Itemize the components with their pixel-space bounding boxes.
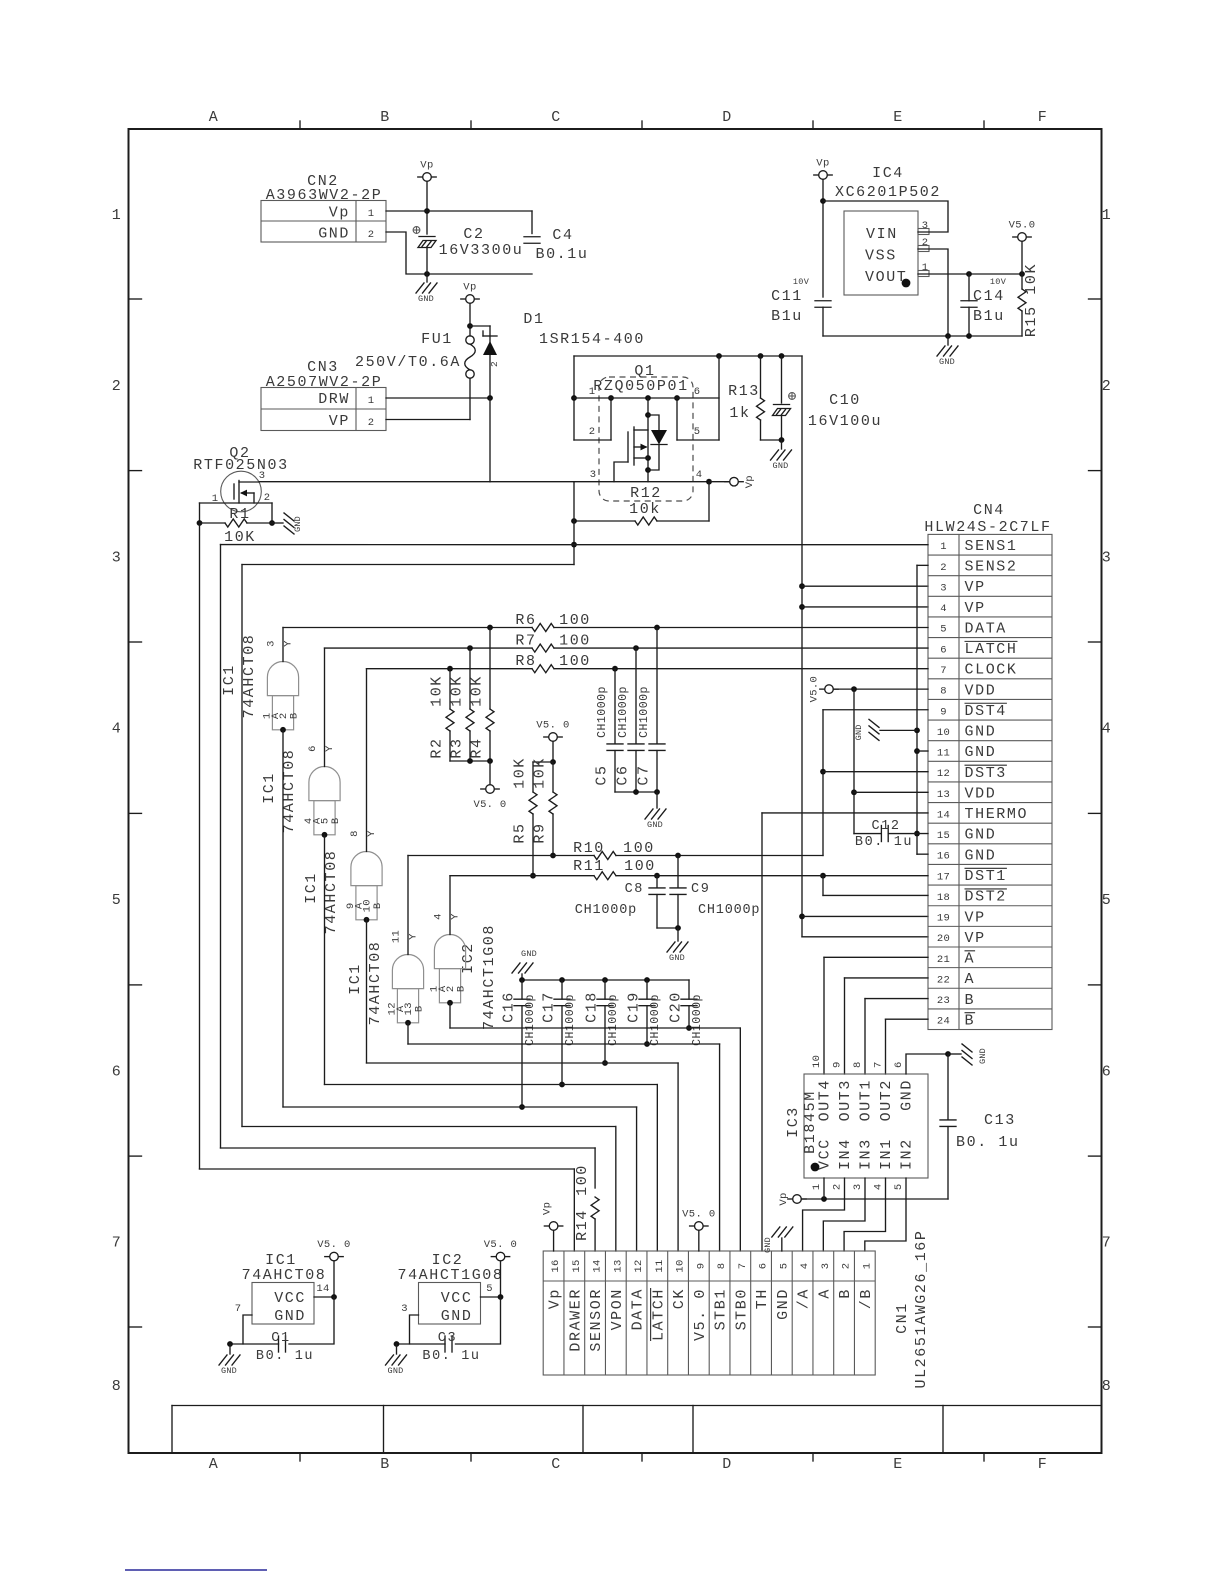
svg-text:7: 7 [873, 1061, 885, 1068]
svg-text:C14: C14 [973, 288, 1005, 305]
svg-text:B0. 1u: B0. 1u [256, 1349, 314, 1364]
svg-text:A: A [816, 1288, 833, 1299]
resistor R13 1k [760, 356, 762, 398]
svg-text:Vp: Vp [547, 1288, 564, 1309]
svg-text:DST1: DST1 [965, 868, 1007, 885]
svg-text:GND: GND [521, 949, 537, 959]
svg-text:GND: GND [388, 1366, 404, 1376]
Q1 pin row 3-4 [574, 481, 709, 483]
IC3 pin6 to ground and C13 [906, 1054, 948, 1074]
svg-text:9: 9 [940, 706, 947, 718]
svg-text:7: 7 [112, 1235, 123, 1252]
svg-text:SENS1: SENS1 [965, 538, 1018, 555]
wire DST4/DST3 x823 [823, 709, 928, 711]
svg-text:VIN: VIN [866, 226, 898, 243]
svg-text:FU1: FU1 [421, 331, 453, 348]
wire THERMO row14 [762, 812, 928, 814]
svg-text:IC1: IC1 [303, 872, 320, 904]
capacitor C9 CH1000p [677, 856, 679, 888]
svg-text:A3963WV2-2P: A3963WV2-2P [266, 187, 383, 204]
diode D1 1SR154-400 [489, 326, 491, 398]
terminal V5.0 IC1 [330, 1252, 339, 1261]
svg-text:R1: R1 [229, 506, 250, 523]
svg-text:R14: R14 [574, 1209, 591, 1241]
svg-text:CH1000p: CH1000p [698, 903, 760, 918]
svg-text:STB1: STB1 [713, 1288, 730, 1330]
svg-text:GND: GND [965, 724, 997, 741]
svg-text:6: 6 [694, 386, 701, 398]
svg-text:Y: Y [324, 745, 336, 752]
svg-text:IN1: IN1 [878, 1138, 895, 1170]
wire pin2 to gnd [918, 249, 948, 336]
svg-text:R9: R9 [532, 822, 549, 843]
blue underline mark [125, 1569, 267, 1571]
terminal V5.0 IC2 [496, 1252, 505, 1261]
Q1 pin frame left [573, 356, 575, 440]
svg-text:GND: GND [274, 1308, 306, 1325]
svg-text:Vp: Vp [329, 205, 350, 222]
svg-text:15: 15 [937, 830, 950, 842]
svg-text:IC3: IC3 [785, 1106, 802, 1138]
svg-text:13: 13 [612, 1259, 624, 1272]
svg-text:B1u: B1u [771, 308, 803, 325]
svg-text:GND: GND [293, 516, 303, 532]
terminal Vp at Q1 pin4 [709, 481, 729, 483]
svg-text:2: 2 [832, 1184, 844, 1191]
svg-text:OUT1: OUT1 [858, 1079, 875, 1121]
svg-text:RZQ050P01: RZQ050P01 [593, 378, 688, 395]
svg-text:IC1: IC1 [347, 963, 364, 995]
svg-text:6: 6 [112, 1064, 123, 1081]
svg-text:D: D [722, 1456, 733, 1473]
svg-text:B: B [289, 712, 301, 719]
svg-text:R11: R11 [573, 858, 605, 875]
svg-text:23: 23 [937, 995, 950, 1007]
svg-text:1: 1 [368, 395, 375, 407]
ground IC1 block [229, 1344, 231, 1354]
resistor R11 100 [450, 875, 594, 877]
svg-text:C10: C10 [829, 392, 861, 409]
wire to CN1 pin 11 [325, 1084, 658, 1086]
svg-text:C6: C6 [615, 764, 632, 785]
svg-text:16V3300u: 16V3300u [439, 242, 524, 259]
svg-text:8: 8 [349, 830, 361, 837]
terminal Vp top [423, 173, 432, 182]
svg-text:6: 6 [307, 745, 319, 752]
svg-text:4: 4 [696, 469, 703, 481]
svg-text:GND: GND [418, 294, 434, 304]
resistor R8 100 [367, 668, 533, 670]
svg-text:Vp: Vp [420, 160, 433, 172]
wire Q2 source/drain [200, 502, 273, 504]
svg-text:Y: Y [450, 913, 462, 920]
IC3 B1845M [804, 1074, 928, 1178]
svg-text:Vp: Vp [778, 1192, 790, 1205]
svg-text:B: B [965, 992, 976, 1009]
svg-text:5: 5 [893, 1184, 905, 1191]
svg-text:GND: GND [763, 1237, 773, 1253]
svg-text:CH1000p: CH1000p [564, 994, 577, 1046]
svg-text:13: 13 [937, 789, 950, 801]
svg-text:IC1: IC1 [221, 664, 238, 696]
svg-text:LATCH: LATCH [650, 1288, 667, 1341]
svg-text:7: 7 [940, 665, 947, 677]
svg-text:R5: R5 [512, 822, 529, 843]
svg-text:2: 2 [841, 1263, 853, 1270]
capacitor C17 CH1000p [561, 980, 563, 999]
svg-text:3: 3 [259, 470, 266, 482]
svg-text:Vp: Vp [463, 282, 476, 294]
ground below C9 [677, 928, 679, 941]
svg-text:GND: GND [965, 847, 997, 864]
svg-text:B0. 1u: B0. 1u [956, 1134, 1020, 1151]
svg-text:100: 100 [559, 633, 591, 650]
svg-text:VP: VP [965, 600, 986, 617]
Q1 top rail [574, 355, 802, 357]
svg-text:5: 5 [1102, 892, 1113, 909]
resistor R6 100 [283, 627, 532, 629]
title block [172, 1405, 1102, 1407]
svg-text:Vp: Vp [744, 475, 756, 488]
resistor R1 10K [225, 519, 247, 527]
svg-text:V5. 0: V5. 0 [536, 720, 570, 732]
capacitor C6 CH1000p [635, 648, 637, 744]
svg-text:GND: GND [647, 820, 663, 830]
svg-text:3: 3 [401, 1303, 408, 1315]
svg-text:CLOCK: CLOCK [965, 662, 1018, 679]
IC4 ground rail [823, 335, 1022, 337]
fuse FU1 250V/T0.6A [466, 336, 474, 344]
wire GND bus x917 [917, 564, 928, 566]
svg-text:12: 12 [937, 768, 950, 780]
svg-text:2: 2 [368, 417, 375, 429]
svg-text:10K: 10K [224, 529, 256, 546]
svg-text:IC1: IC1 [261, 772, 278, 804]
svg-text:2: 2 [264, 492, 271, 504]
svg-text:CN1: CN1 [894, 1302, 911, 1334]
wire VP bus vertical [801, 356, 803, 937]
svg-text:7: 7 [737, 1263, 749, 1270]
svg-text:R12: R12 [630, 485, 662, 502]
svg-text:E: E [893, 1456, 904, 1473]
svg-text:18: 18 [937, 892, 950, 904]
svg-text:/B: /B [858, 1288, 875, 1309]
svg-text:19: 19 [937, 913, 950, 925]
svg-text:16V100u: 16V100u [808, 413, 882, 430]
svg-text:A: A [965, 951, 976, 968]
terminal Vp IC4 [819, 171, 828, 180]
svg-text:CH1000p: CH1000p [596, 686, 609, 738]
svg-text:16: 16 [937, 851, 950, 863]
svg-text:74AHCT1G08: 74AHCT1G08 [397, 1267, 503, 1284]
svg-text:10K: 10K [429, 675, 446, 707]
capacitor C4 B0.1u [524, 236, 540, 238]
svg-text:15: 15 [571, 1259, 583, 1272]
svg-text:10k: 10k [629, 501, 661, 518]
svg-text:UL2651AWG26_16P: UL2651AWG26_16P [913, 1229, 930, 1388]
svg-text:LATCH: LATCH [965, 641, 1018, 658]
svg-text:B: B [414, 1005, 426, 1012]
svg-text:DST2: DST2 [965, 889, 1007, 906]
svg-text:1: 1 [112, 207, 123, 224]
svg-text:C5: C5 [594, 764, 611, 785]
transistor Q1 RZQ050P01 dashed outline [599, 377, 693, 501]
svg-text:7: 7 [235, 1303, 242, 1315]
svg-text:VDD: VDD [965, 785, 997, 802]
capacitor C1 B0.1u [278, 1336, 280, 1352]
svg-text:4: 4 [112, 721, 123, 738]
svg-text:GND: GND [318, 226, 350, 243]
svg-text:2: 2 [489, 361, 500, 367]
resistor R2 10K [449, 669, 451, 709]
svg-text:IN4: IN4 [837, 1138, 854, 1170]
svg-text:GND: GND [939, 357, 955, 367]
svg-text:74AHCT1G08: 74AHCT1G08 [481, 924, 498, 1030]
ground below C10 [781, 440, 783, 449]
svg-text:C9: C9 [691, 882, 710, 897]
svg-text:100: 100 [559, 612, 591, 629]
svg-text:R7: R7 [515, 633, 536, 650]
svg-text:C12: C12 [871, 819, 900, 834]
svg-text:4: 4 [433, 913, 445, 920]
svg-text:VPON: VPON [609, 1288, 626, 1330]
svg-text:D1: D1 [523, 311, 544, 328]
capacitor C12 B0.1u [854, 833, 881, 835]
svg-text:74AHCT08: 74AHCT08 [323, 850, 340, 935]
ground IC4 [947, 336, 949, 345]
svg-text:V5.0: V5.0 [1009, 220, 1036, 232]
svg-text:C: C [551, 1456, 562, 1473]
capacitor C16 CH1000p [521, 980, 523, 999]
svg-text:VP: VP [965, 579, 986, 596]
resistor R12 10k [708, 482, 710, 521]
svg-text:1: 1 [922, 262, 929, 274]
svg-text:F: F [1038, 109, 1049, 126]
svg-text:5: 5 [112, 892, 123, 909]
svg-text:1: 1 [861, 1263, 873, 1270]
svg-text:17: 17 [937, 871, 950, 883]
svg-text:C19: C19 [626, 991, 643, 1023]
svg-text:VP: VP [965, 909, 986, 926]
terminal Vp IC3 [793, 1195, 802, 1204]
svg-text:6: 6 [893, 1061, 905, 1068]
svg-text:B: B [372, 902, 384, 909]
capacitor C2 16V3300u [419, 236, 435, 238]
svg-text:21: 21 [937, 954, 950, 966]
svg-text:GND: GND [775, 1288, 792, 1320]
svg-text:5: 5 [778, 1263, 790, 1270]
svg-text:4: 4 [799, 1263, 811, 1270]
wire DRW node [386, 397, 490, 399]
svg-text:B: B [965, 1012, 976, 1029]
svg-text:R3: R3 [449, 737, 466, 758]
svg-text:C8: C8 [625, 882, 644, 897]
capacitor C20 CH1000p [688, 980, 690, 999]
border frame [129, 129, 1102, 1453]
svg-text:1: 1 [940, 541, 947, 553]
svg-text:GND: GND [899, 1079, 916, 1111]
svg-text:VSS: VSS [865, 248, 897, 265]
svg-text:74AHCT08: 74AHCT08 [367, 941, 384, 1026]
svg-text:THERMO: THERMO [965, 806, 1029, 823]
capacitor C10 16V100u [781, 356, 783, 403]
svg-text:100: 100 [623, 840, 655, 857]
svg-text:250V/T0.6A: 250V/T0.6A [355, 354, 461, 371]
wire to CN1 pin 12 [283, 1106, 637, 1108]
svg-text:C16: C16 [501, 991, 518, 1023]
svg-text:B0.1u: B0.1u [535, 246, 588, 263]
svg-text:B: B [380, 1456, 391, 1473]
IC3 inputs to CN1 [803, 1178, 845, 1251]
svg-text:DRAWER: DRAWER [567, 1288, 584, 1352]
svg-text:3: 3 [1102, 549, 1113, 566]
svg-text:16: 16 [550, 1259, 562, 1272]
wire to CN1 pin 13 [242, 1126, 616, 1128]
wire VPON from Q1 [241, 565, 243, 1127]
svg-text:Y: Y [366, 830, 378, 837]
svg-text:10: 10 [675, 1259, 687, 1272]
svg-text:B0. 1u: B0. 1u [422, 1349, 480, 1364]
ground below C2 [426, 274, 428, 282]
wire V5.0 vertical x854 [853, 689, 855, 833]
svg-text:V5. 0: V5. 0 [317, 1239, 351, 1251]
svg-text:3: 3 [922, 220, 929, 232]
ground IC2 block [396, 1344, 398, 1354]
wire to CN1 pin 15 [200, 1168, 575, 1170]
svg-text:2: 2 [112, 378, 123, 395]
svg-text:10K: 10K [532, 757, 549, 789]
svg-text:Vp: Vp [542, 1202, 554, 1215]
svg-text:9: 9 [695, 1263, 707, 1270]
wire to CN1 pin 7 [450, 1027, 740, 1029]
svg-text:CN4: CN4 [973, 502, 1005, 519]
svg-text:B: B [837, 1288, 854, 1299]
svg-text:R2: R2 [429, 737, 446, 758]
svg-text:R13: R13 [728, 383, 760, 400]
resistor R10 100 [408, 855, 594, 857]
svg-text:Y: Y [408, 933, 420, 940]
capacitor C19 CH1000p [646, 980, 648, 999]
svg-text:GND: GND [965, 744, 997, 761]
svg-text:2: 2 [368, 229, 375, 241]
svg-text:C: C [551, 109, 562, 126]
svg-text:C1: C1 [271, 1331, 290, 1346]
wire bundle left verticals [199, 523, 201, 1169]
terminal V5.0 below R4 [489, 761, 491, 785]
svg-text:VDD: VDD [965, 682, 997, 699]
svg-text:VCC: VCC [817, 1138, 834, 1170]
svg-text:11: 11 [654, 1259, 666, 1272]
resistor R9 10K [552, 762, 554, 792]
svg-text:VCC: VCC [441, 1290, 473, 1307]
svg-text:V5. 0: V5. 0 [473, 799, 506, 811]
svg-text:2: 2 [1102, 378, 1113, 395]
svg-text:20: 20 [937, 933, 950, 945]
svg-text:GND: GND [221, 1366, 237, 1376]
svg-text:V5.0: V5.0 [809, 676, 821, 702]
svg-text:SENS2: SENS2 [965, 559, 1018, 576]
svg-text:/A: /A [796, 1288, 813, 1309]
wires rows 21-24 from IC3 [824, 956, 928, 958]
svg-text:R6: R6 [515, 612, 536, 629]
svg-text:IC4: IC4 [872, 165, 904, 182]
svg-text:10: 10 [811, 1055, 823, 1068]
svg-text:Vp: Vp [816, 158, 829, 170]
capacitor C8 CH1000p [656, 876, 658, 888]
svg-text:5: 5 [694, 426, 701, 438]
svg-text:5: 5 [940, 624, 947, 636]
svg-text:9: 9 [832, 1061, 844, 1068]
svg-text:CH1000p: CH1000p [649, 994, 662, 1046]
svg-text:8: 8 [1102, 1378, 1113, 1395]
svg-text:3: 3 [112, 549, 123, 566]
svg-text:8: 8 [112, 1378, 123, 1395]
svg-text:3: 3 [266, 640, 278, 647]
junction dots R6-R8 [487, 625, 493, 631]
wire pin1 VOUT [918, 273, 1022, 275]
svg-text:GND: GND [773, 461, 789, 471]
svg-text:V5. 0: V5. 0 [484, 1239, 518, 1251]
svg-text:74AHCT08: 74AHCT08 [241, 634, 258, 719]
svg-text:STB0: STB0 [733, 1288, 750, 1330]
svg-text:8: 8 [716, 1263, 728, 1270]
resistor R7 100 [325, 647, 533, 649]
svg-text:22: 22 [937, 974, 950, 986]
svg-text:3: 3 [940, 582, 947, 594]
capacitor C18 CH1000p [604, 980, 606, 999]
svg-text:SENSOR: SENSOR [588, 1288, 605, 1352]
svg-text:2: 2 [940, 562, 947, 574]
svg-text:F: F [1038, 1456, 1049, 1473]
capacitor C14 B1u [968, 274, 970, 301]
svg-text:6: 6 [940, 644, 947, 656]
svg-text:C13: C13 [984, 1112, 1016, 1129]
svg-text:OUT2: OUT2 [878, 1079, 895, 1121]
Q1 internal MOSFET [647, 398, 649, 482]
wire to CN1 pin 8 [408, 1043, 720, 1045]
svg-text:3: 3 [590, 469, 597, 481]
svg-text:10K: 10K [469, 675, 486, 707]
wire row8 VDD V5.0 [825, 685, 834, 694]
svg-text:GND: GND [965, 827, 997, 844]
svg-text:R8: R8 [515, 653, 536, 670]
svg-text:GND: GND [854, 724, 864, 740]
svg-text:100: 100 [574, 1164, 591, 1196]
svg-text:6: 6 [1102, 1064, 1113, 1081]
svg-text:4: 4 [873, 1184, 885, 1191]
wire CN2-2 down [386, 232, 532, 274]
svg-text:14: 14 [316, 1283, 329, 1295]
C16-C20 top rail [522, 979, 689, 981]
svg-text:74AHCT08: 74AHCT08 [242, 1267, 327, 1284]
svg-text:GND: GND [978, 1048, 988, 1064]
Q1 pin frame right [718, 356, 720, 440]
svg-text:DRW: DRW [318, 391, 350, 408]
svg-text:VOUT: VOUT [865, 269, 907, 286]
svg-text:2: 2 [589, 426, 596, 438]
svg-text:6: 6 [758, 1263, 770, 1270]
svg-text:11: 11 [937, 748, 950, 760]
svg-text:OUT4: OUT4 [817, 1079, 834, 1121]
svg-text:GND: GND [441, 1308, 473, 1325]
svg-text:CH1000p: CH1000p [575, 903, 637, 918]
svg-text:B: B [330, 817, 342, 824]
svg-text:12: 12 [633, 1259, 645, 1272]
svg-text:CH1000p: CH1000p [691, 994, 704, 1046]
svg-text:OUT3: OUT3 [837, 1079, 854, 1121]
svg-text:A: A [209, 109, 220, 126]
capacitor C11 B1u [815, 300, 831, 302]
